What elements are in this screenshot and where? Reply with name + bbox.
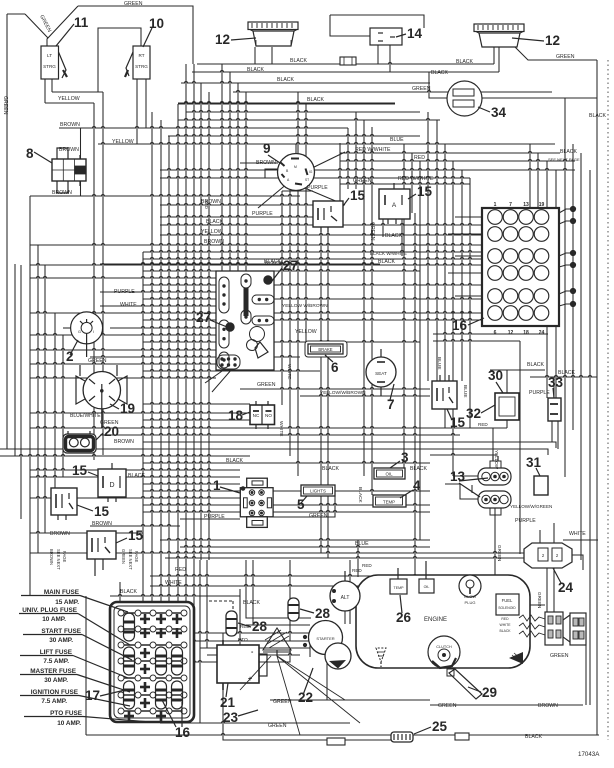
- connector 16 24-pin: [482, 208, 559, 326]
- wire white right: [563, 539, 598, 541]
- svg-text:GREEN: GREEN: [412, 86, 431, 92]
- wire 14 pin2: [389, 45, 391, 72]
- svg-text:GREEN: GREEN: [121, 549, 126, 564]
- wire 8 riser: [80, 128, 82, 160]
- wire bottom bus2: [200, 647, 310, 649]
- wire v194: [193, 64, 195, 690]
- wire y456: [0, 455, 250, 457]
- svg-text:BLACK W/WHITE: BLACK W/WHITE: [370, 251, 407, 256]
- flasher 34: [447, 81, 482, 116]
- wire light12L pin1: [254, 47, 256, 64]
- wire dotted border: [607, 60, 609, 740]
- svg-text:BLACK: BLACK: [128, 473, 146, 479]
- wire y442: [143, 442, 556, 448]
- svg-text:BROWN: BROWN: [60, 122, 80, 128]
- fuse 28b: [288, 598, 299, 621]
- wire redwhite y153: [340, 152, 560, 154]
- wire black y463: [143, 462, 430, 463]
- svg-text:BLACK: BLACK: [322, 466, 340, 472]
- svg-text:BROWN: BROWN: [50, 531, 70, 537]
- svg-text:1: 1: [213, 478, 221, 493]
- wire lt strobe pin2: [51, 79, 53, 92]
- fuse 28a: [226, 611, 237, 636]
- connector small B: [455, 733, 469, 740]
- svg-text:10 AMP.: 10 AMP.: [57, 720, 81, 727]
- wire brown y705: [436, 704, 583, 706]
- wire conn16 hook6: [559, 304, 573, 306]
- wire y278: [30, 277, 216, 279]
- wire v230: [229, 72, 231, 271]
- wire purple y217: [160, 216, 313, 218]
- connector 16 dots: [570, 206, 575, 211]
- svg-text:SEAT: SEAT: [375, 371, 387, 376]
- svg-text:YELLOW/W/GREEN: YELLOW/W/GREEN: [510, 504, 552, 509]
- svg-text:RED: RED: [352, 568, 362, 573]
- wire v437: [436, 120, 438, 381]
- svg-text:31: 31: [526, 455, 542, 470]
- svg-text:15: 15: [417, 184, 433, 199]
- wire 33 top pin: [553, 377, 555, 398]
- wire v547: [546, 161, 548, 398]
- wire light12L pin2: [271, 47, 273, 64]
- svg-text:BLACK: BLACK: [431, 70, 449, 76]
- wire v209: [208, 92, 210, 560]
- wire green left link: [7, 13, 25, 15]
- engine outline: [356, 575, 530, 668]
- svg-text:GREEN: GREEN: [309, 513, 328, 519]
- wire v364b: [363, 120, 365, 476]
- wire v95: [93, 103, 95, 460]
- wire y259: [143, 258, 482, 260]
- wire y264: [100, 263, 380, 265]
- svg-text:7: 7: [509, 202, 512, 208]
- wire conn16 hook2: [559, 221, 573, 224]
- wire v470b: [469, 178, 471, 428]
- wire y120: [178, 119, 440, 121]
- wire relay15a pin drop2: [327, 227, 329, 558]
- wire brown y196: [30, 195, 300, 197]
- svg-text:19: 19: [539, 202, 545, 208]
- svg-text:M: M: [294, 165, 297, 169]
- wire ign 9 top: [295, 144, 297, 153]
- svg-text:GREEN: GREEN: [353, 178, 372, 184]
- wire 13 down: [494, 508, 496, 575]
- panel board 27: [216, 271, 274, 370]
- svg-text:18: 18: [228, 408, 244, 423]
- wire 34 feed: [482, 97, 597, 99]
- ignitor 29: [449, 669, 482, 699]
- relay 15b A: [379, 189, 410, 219]
- svg-text:21: 21: [220, 695, 236, 710]
- wire v298: [297, 92, 299, 476]
- wire y470: [30, 469, 240, 471]
- svg-text:WHITE: WHITE: [165, 580, 182, 586]
- switch 5 LIGHTS: [301, 485, 335, 496]
- svg-text:SEE NEXT PAGE: SEE NEXT PAGE: [548, 157, 580, 162]
- wire v152: [151, 112, 153, 620]
- switch S10 RT STRG: [133, 46, 150, 79]
- wire y104: [178, 103, 395, 105]
- svg-text:NO: NO: [265, 413, 272, 418]
- wire starter feed5: [246, 560, 311, 618]
- svg-text:GREEN: GREEN: [369, 222, 375, 241]
- svg-text:RED W/WHITE: RED W/WHITE: [355, 147, 391, 153]
- svg-text:RED: RED: [478, 422, 488, 427]
- wire lamp2 left stub: [63, 327, 71, 329]
- engine temp sender: [390, 579, 407, 594]
- svg-text:27: 27: [283, 258, 298, 273]
- wire 24 right: [572, 555, 583, 570]
- svg-text:BLACK: BLACK: [206, 219, 224, 225]
- wire bottom bus1: [200, 640, 310, 642]
- svg-text:BLACK: BLACK: [525, 734, 543, 740]
- svg-text:27: 27: [196, 310, 211, 325]
- wire red y161: [340, 160, 575, 162]
- seat switch 7: [366, 357, 396, 387]
- wire yellow loop top: [52, 91, 103, 93]
- gauge 19: [83, 372, 120, 409]
- svg-text:13: 13: [523, 202, 529, 208]
- svg-text:ST: ST: [305, 178, 309, 182]
- wire y435: [100, 434, 460, 436]
- wire black bus y83: [181, 82, 430, 84]
- wire y112: [186, 111, 420, 112]
- wire green y723: [160, 722, 350, 724]
- wire lt strobe pins: [44, 79, 46, 103]
- wire y455 right: [430, 454, 497, 456]
- wire v462: [461, 170, 463, 381]
- wire black y596b: [110, 595, 200, 597]
- wire y540: [160, 539, 430, 541]
- svg-text:BLACK: BLACK: [265, 261, 283, 267]
- svg-text:WHITE: WHITE: [120, 302, 137, 308]
- wire starter feed4: [253, 560, 310, 625]
- svg-text:BROWN: BROWN: [49, 549, 54, 565]
- wire y404: [143, 403, 250, 405]
- wire y350: [30, 349, 216, 351]
- svg-text:BLACK: BLACK: [456, 59, 474, 65]
- svg-text:30 AMP.: 30 AMP.: [44, 677, 68, 684]
- switch 18 NC NO: [250, 405, 275, 425]
- svg-text:RT: RT: [138, 53, 144, 58]
- svg-text:RED W/WHITE: RED W/WHITE: [398, 176, 434, 182]
- svg-text:7.5 AMP.: 7.5 AMP.: [43, 658, 69, 665]
- wire yellow y144: [98, 143, 555, 145]
- wire v178: [177, 104, 179, 640]
- wire conn16 stub r4: [448, 272, 482, 274]
- wire rt strobe top feed: [98, 28, 141, 92]
- wire ign 9 diag2: [300, 186, 345, 205]
- svg-text:BLUE/WHITE: BLUE/WHITE: [70, 413, 101, 419]
- wire light12R pin1: [493, 47, 495, 64]
- wire starter feed2: [120, 640, 200, 642]
- svg-text:BROWN: BROWN: [59, 147, 79, 153]
- wire y265: [30, 264, 482, 266]
- svg-text:SEE NEXT: SEE NEXT: [56, 549, 61, 570]
- svg-text:LT: LT: [47, 53, 52, 58]
- svg-text:25: 25: [432, 719, 448, 734]
- wire y491: [143, 490, 430, 492]
- wire light12R pin2: [498, 47, 500, 72]
- wire v21: [20, 265, 22, 519]
- wire battery plus: [259, 648, 290, 662]
- module 14: [370, 28, 402, 45]
- wire v445: [444, 144, 446, 428]
- brake switch 6: [305, 341, 347, 357]
- svg-text:YELLOW: YELLOW: [112, 139, 134, 145]
- wire v15: [14, 264, 16, 456]
- svg-text:33: 33: [548, 375, 564, 390]
- wire lights loop: [270, 496, 335, 517]
- svg-text:BLACK: BLACK: [357, 487, 363, 504]
- svg-text:30: 30: [488, 368, 503, 383]
- svg-text:BLACK: BLACK: [290, 58, 308, 64]
- wire v30: [29, 196, 31, 596]
- wire black y735: [86, 734, 599, 736]
- svg-text:GREEN: GREEN: [124, 1, 143, 7]
- battery 21: [217, 645, 259, 683]
- wire ign 9 loop: [265, 169, 280, 178]
- wire black y225: [160, 224, 482, 226]
- svg-text:STRG: STRG: [43, 64, 56, 69]
- wire rt strobe pins: [136, 79, 138, 144]
- wire 13 link: [471, 485, 473, 493]
- svg-text:PAGE: PAGE: [62, 551, 67, 563]
- wire v520: [519, 341, 521, 554]
- wire conn16 hook1: [559, 209, 573, 213]
- svg-text:BLACK: BLACK: [499, 629, 511, 633]
- inline connector top: [340, 57, 356, 65]
- svg-text:GREEN: GREEN: [550, 653, 569, 659]
- svg-text:24: 24: [539, 330, 545, 336]
- svg-text:IG: IG: [309, 170, 313, 174]
- svg-text:BLUE: BLUE: [436, 357, 442, 370]
- svg-text:BROWN: BROWN: [92, 521, 112, 527]
- wire brown y526: [90, 525, 180, 527]
- svg-text:19: 19: [120, 401, 135, 416]
- wire v290b: [289, 560, 291, 599]
- svg-text:TEMP: TEMP: [394, 586, 405, 590]
- lamp 12 right: [474, 24, 524, 32]
- wire v282: [281, 191, 283, 405]
- svg-text:FUEL: FUEL: [502, 598, 513, 603]
- wire conn16 stub r1: [455, 216, 482, 218]
- svg-text:BLACK: BLACK: [247, 67, 265, 73]
- wire v120b: [119, 582, 121, 662]
- wire y320: [143, 319, 482, 321]
- wire v63: [62, 335, 64, 477]
- connector 13: [478, 468, 511, 485]
- wire batt top: [222, 633, 224, 640]
- wire purple y519: [180, 518, 240, 520]
- wire v240btm: [239, 589, 241, 645]
- svg-text:15: 15: [72, 463, 88, 478]
- wire conn16 stub r5: [455, 295, 482, 297]
- svg-text:YELLOW: YELLOW: [201, 229, 223, 235]
- wire y252: [143, 251, 482, 253]
- switch S11 LT STRG: [41, 46, 59, 79]
- svg-text:12: 12: [545, 33, 560, 48]
- wire v428b: [427, 112, 429, 381]
- wire black bus y72: [192, 71, 499, 73]
- wire relayA pin drop2: [401, 219, 403, 256]
- wire v200b: [199, 560, 201, 700]
- wire v306: [305, 104, 307, 342]
- wire 33 top bus: [530, 376, 597, 378]
- wire conn16 stub r6: [448, 312, 482, 314]
- svg-text:GLOW: GLOW: [464, 594, 476, 599]
- svg-text:BLACK: BLACK: [378, 259, 396, 265]
- connector 1: [247, 478, 268, 488]
- wire v246: [245, 92, 247, 271]
- engine arrow ground: [509, 652, 523, 664]
- engine ground: [376, 648, 386, 662]
- wire white y306: [100, 305, 216, 307]
- wire conn16 hook4: [559, 265, 573, 267]
- svg-text:GREEN: GREEN: [100, 420, 119, 426]
- svg-text:BLACK: BLACK: [120, 589, 138, 595]
- wire v186: [185, 64, 187, 690]
- svg-text:BLUE: BLUE: [462, 385, 468, 398]
- wire dashed 28a top: [232, 601, 234, 611]
- svg-text:4: 4: [413, 478, 421, 493]
- svg-text:17: 17: [85, 688, 100, 703]
- wire v161: [160, 120, 162, 620]
- glow plug: [459, 575, 481, 597]
- wire v412: [411, 153, 413, 213]
- wire y484: [143, 483, 240, 484]
- svg-text:BLACK: BLACK: [307, 97, 325, 103]
- svg-text:16: 16: [452, 318, 468, 333]
- wire v350b: [349, 560, 351, 624]
- svg-text:6: 6: [494, 330, 497, 336]
- wire y420: [143, 419, 250, 421]
- wire v348: [347, 128, 349, 189]
- wire v415 trunk: [414, 213, 416, 586]
- svg-text:D: D: [109, 482, 114, 489]
- wire battery feed: [120, 661, 217, 663]
- wire battery bottom drop: [223, 690, 391, 740]
- svg-text:NC: NC: [253, 413, 260, 418]
- wire y553: [30, 552, 530, 554]
- lamp 2: [71, 312, 103, 344]
- wire 13 stub1: [453, 475, 478, 477]
- wire relayA pin drop1: [382, 219, 384, 237]
- svg-text:9: 9: [263, 141, 271, 156]
- svg-text:11: 11: [74, 15, 89, 30]
- fuse block 16/17: [110, 602, 194, 722]
- svg-text:I: I: [93, 330, 94, 334]
- wire v356: [355, 112, 357, 189]
- wire 13 stub2: [445, 484, 478, 499]
- wire y364: [30, 363, 250, 365]
- svg-text:STRG: STRG: [135, 64, 148, 69]
- svg-text:BROWN: BROWN: [52, 190, 72, 196]
- wire v453: [452, 161, 454, 476]
- wire 24 top2: [553, 523, 555, 543]
- svg-text:15: 15: [350, 188, 366, 203]
- wire y313: [30, 312, 482, 314]
- module 32: [495, 393, 519, 420]
- svg-text:WHITE: WHITE: [286, 364, 292, 379]
- svg-text:SEE NEXT: SEE NEXT: [128, 549, 133, 570]
- wire fuse top feed: [200, 596, 240, 611]
- svg-text:SOLENOID: SOLENOID: [498, 606, 516, 610]
- svg-text:YELLOW: YELLOW: [494, 450, 499, 470]
- svg-text:PURPLE: PURPLE: [252, 211, 273, 217]
- svg-text:OIL: OIL: [385, 472, 393, 477]
- ignition switch 9: [278, 154, 315, 191]
- svg-text:GREEN: GREEN: [2, 96, 8, 115]
- wire conn16 hook5: [559, 291, 573, 294]
- svg-text:30 AMP.: 30 AMP.: [49, 637, 73, 644]
- svg-text:RED: RED: [362, 563, 372, 568]
- wire ign 9 right diag: [308, 152, 345, 170]
- ground fan wires: [277, 656, 345, 700]
- wire v372: [371, 127, 373, 495]
- wire brown y533: [30, 532, 143, 534]
- svg-text:RED: RED: [501, 617, 509, 621]
- svg-text:12: 12: [215, 32, 230, 47]
- wire v590: [589, 170, 591, 705]
- wire green right low: [585, 645, 587, 705]
- svg-text:BROWN: BROWN: [538, 703, 558, 709]
- wire y371: [143, 370, 320, 372]
- wire conn24 drop: [546, 568, 548, 615]
- svg-text:ENGINE: ENGINE: [424, 617, 447, 623]
- svg-text:G: G: [78, 330, 81, 334]
- svg-text:BLUE: BLUE: [355, 541, 369, 547]
- svg-text:BLACK: BLACK: [226, 458, 244, 464]
- wire v573: [572, 144, 574, 430]
- wire fuel right wires: [518, 604, 545, 606]
- svg-text:WHITE: WHITE: [278, 421, 284, 436]
- connector 8: [52, 159, 86, 181]
- wire green diag to LT strobe: [47, 6, 78, 46]
- wire v556: [555, 170, 557, 398]
- engine oil sender: [419, 579, 434, 593]
- svg-text:BLACK: BLACK: [558, 370, 576, 376]
- svg-text:15 AMP.: 15 AMP.: [55, 599, 79, 606]
- svg-text:6: 6: [331, 360, 339, 375]
- svg-text:YELLOW W/BROWN: YELLOW W/BROWN: [282, 303, 328, 309]
- svg-text:23: 23: [223, 710, 239, 725]
- connector 24: [524, 543, 572, 568]
- wire v38: [37, 245, 39, 553]
- svg-text:15: 15: [128, 528, 144, 543]
- svg-text:GREEN: GREEN: [273, 699, 292, 705]
- wire ign 9 left stub: [240, 162, 278, 164]
- wire dashed y601: [209, 600, 233, 602]
- connector small A: [327, 738, 345, 745]
- diode 25: [391, 732, 413, 742]
- svg-text:A: A: [392, 202, 397, 209]
- wire green y705L: [430, 704, 510, 706]
- connector 20: [63, 434, 96, 453]
- wire green y357: [90, 356, 300, 358]
- svg-text:28: 28: [315, 606, 331, 621]
- svg-text:STARTER: STARTER: [316, 636, 334, 641]
- svg-text:28: 28: [252, 619, 268, 634]
- svg-text:LIGHTS: LIGHTS: [310, 489, 326, 494]
- wire brown y205: [160, 204, 330, 206]
- wire y299: [143, 298, 482, 300]
- wire green right light: [515, 47, 597, 60]
- wire y558: [165, 557, 530, 559]
- wire starter btm: [326, 657, 328, 700]
- wire green y184: [340, 183, 470, 185]
- fuel solenoid: [496, 594, 519, 615]
